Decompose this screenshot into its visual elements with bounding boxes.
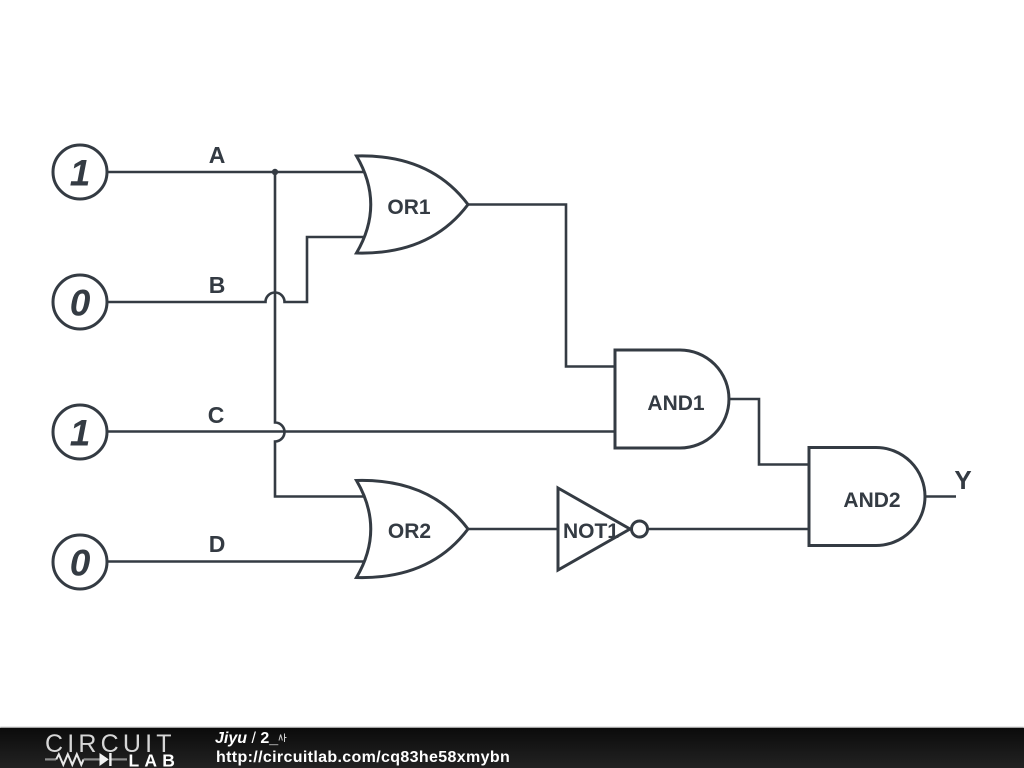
junction dot on node A — [272, 169, 278, 175]
input source 0 (node B) — [53, 275, 107, 329]
svg-text:C: C — [208, 402, 225, 428]
or gate OR1 — [357, 156, 469, 253]
wire D : input 0 to OR2 lower input — [107, 560, 368, 563]
wire B : input 0 to OR1 lower input (hops over branch wire) — [107, 237, 368, 302]
svg-text:OR1: OR1 — [387, 196, 431, 219]
and gate AND1 — [615, 350, 729, 448]
wire AND1 output to AND2 upper input — [729, 399, 816, 465]
svg-text:OR2: OR2 — [388, 520, 431, 543]
svg-text:A: A — [209, 142, 226, 168]
logo resistor-diode symbol — [45, 754, 127, 765]
inverter NOT1 — [558, 488, 648, 570]
svg-text:LAB: LAB — [129, 750, 181, 768]
wire NOT1 output to AND2 lower input — [648, 528, 816, 531]
input source 1 (node C) — [53, 405, 107, 459]
input source 0 (node D) — [53, 535, 107, 589]
wire OR1 output to AND1 upper input — [468, 205, 622, 367]
svg-text:AND1: AND1 — [647, 392, 704, 415]
svg-text:Y: Y — [954, 465, 971, 495]
wire OR2 output to NOT1 input — [468, 528, 560, 531]
footer url — [216, 750, 510, 766]
input source 1 (node A) — [53, 145, 107, 199]
footer title: Jiyu / 2_ — [215, 731, 287, 747]
wire node A branch down to OR2 upper input (hops over wire C) — [275, 172, 368, 497]
svg-text:B: B — [209, 272, 226, 298]
svg-text:D: D — [209, 531, 226, 557]
CircuitLab logo — [0, 0, 210, 768]
footer bar — [0, 728, 1024, 768]
svg-text:AND2: AND2 — [843, 489, 900, 512]
wire C : input 1 to AND1 lower input — [107, 430, 622, 433]
wire AND2 output to node Y — [925, 495, 956, 498]
and gate AND2 — [809, 448, 925, 546]
svg-text:NOT1: NOT1 — [563, 520, 619, 543]
wire A : input 1 to OR1 upper input — [107, 171, 368, 174]
or gate OR2 — [357, 480, 469, 577]
